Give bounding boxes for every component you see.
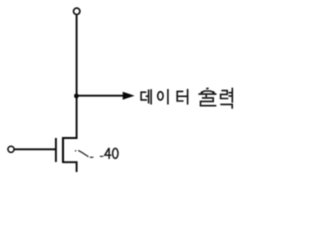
wire drain vertical (terminal to node) — [76, 15, 78, 96]
label 데이터 출력 (data output) drawn as strokes — [141, 88, 232, 109]
syllable 력 — [220, 88, 232, 109]
syllable 이 — [158, 89, 168, 105]
node A (junction dot) — [74, 94, 79, 99]
terminal P2 (gate input terminal circle) — [8, 146, 14, 152]
terminal P1 (top drain terminal circle) — [74, 8, 80, 14]
wire gate lead — [14, 148, 56, 150]
transistor Q1 gate bar — [55, 138, 57, 162]
wire node to transistor drain — [63, 96, 77, 138]
syllable 데 — [141, 89, 151, 104]
leader squiggle to -40 label — [75, 151, 103, 158]
transistor Q1 channel bar — [62, 137, 64, 163]
value label 40 (digit 4 then digit 0, drawn as strokes) — [105, 148, 118, 159]
syllable 출 — [198, 88, 216, 105]
wire transistor source to bottom edge — [63, 162, 77, 172]
arrowhead to output label — [123, 92, 135, 100]
wire output horizontal — [77, 95, 124, 97]
syllable 터 — [177, 89, 187, 105]
